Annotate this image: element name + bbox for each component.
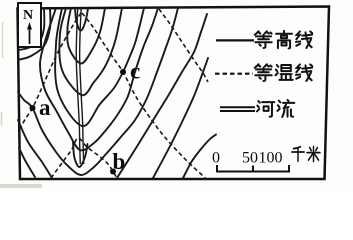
svg-text:0: 0	[212, 150, 220, 167]
svg-text:b: b	[113, 149, 126, 174]
svg-text:50: 50	[242, 150, 258, 167]
svg-text:a: a	[39, 95, 51, 120]
svg-text:100: 100	[259, 150, 283, 167]
svg-text:N: N	[23, 8, 33, 23]
svg-text:c: c	[130, 59, 140, 84]
